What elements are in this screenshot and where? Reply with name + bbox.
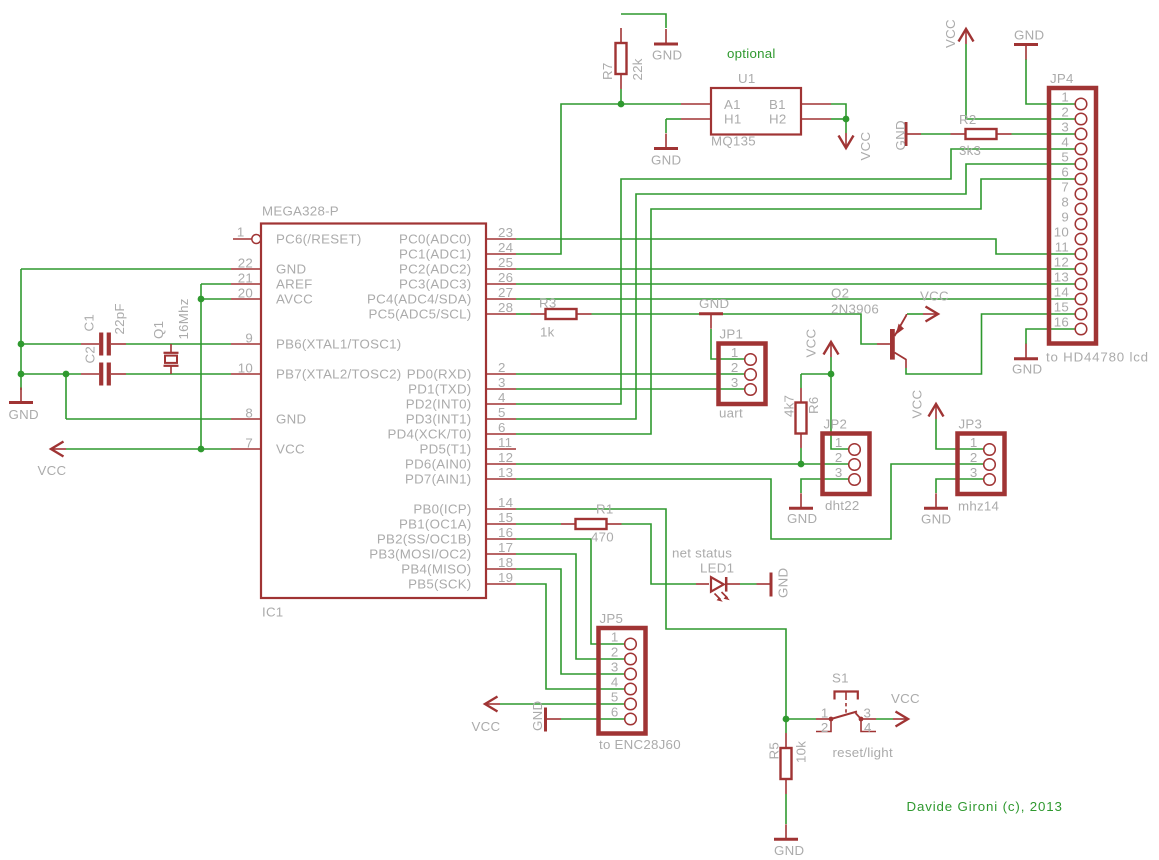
- resistor R5 (10k): [781, 748, 792, 779]
- wire VCC top to JP4 pin2: [966, 44, 1075, 119]
- svg-text:H1: H1: [724, 112, 742, 127]
- wire VCC to JP5 pin5: [500, 703, 625, 705]
- svg-text:20: 20: [238, 285, 253, 300]
- svg-text:VCC: VCC: [891, 691, 920, 706]
- svg-text:JP3: JP3: [959, 417, 983, 432]
- svg-text:C2: C2: [83, 346, 98, 364]
- ground symbol above JP1 (stub down): [699, 314, 723, 329]
- svg-text:IC1: IC1: [262, 605, 283, 620]
- svg-text:7: 7: [245, 435, 253, 450]
- JP2 pin numbers: [835, 435, 843, 480]
- VCC symbol above JP3: [929, 404, 944, 419]
- wire net PC4 pin27 to JP4 pin14: [516, 298, 1075, 300]
- svg-text:JP4: JP4: [1050, 71, 1074, 86]
- ground symbol left of R2 (rotated): [906, 122, 921, 146]
- svg-text:GND: GND: [1012, 362, 1042, 377]
- svg-text:4: 4: [1061, 135, 1069, 150]
- svg-text:PC0(ADC0): PC0(ADC0): [399, 231, 471, 246]
- ground symbol bottom left: [9, 388, 33, 403]
- wire AREF to AVCC vertical: [200, 284, 202, 299]
- VCC symbol left of IC: [51, 442, 66, 457]
- svg-text:PB3(MOSI/OC2): PB3(MOSI/OC2): [369, 546, 471, 561]
- svg-text:18: 18: [498, 555, 513, 570]
- svg-text:VCC: VCC: [858, 132, 873, 161]
- wire JP2 pin3 to GND: [801, 479, 849, 493]
- svg-text:GND: GND: [9, 407, 39, 422]
- svg-text:3: 3: [1061, 120, 1069, 135]
- S1 pin numbers: [821, 706, 872, 736]
- junction AVCC/VCC: [198, 446, 205, 453]
- svg-text:6: 6: [611, 705, 619, 720]
- svg-text:PD1(TXD): PD1(TXD): [408, 381, 471, 396]
- wire IC pin21 AREF row: [201, 283, 231, 285]
- svg-text:27: 27: [498, 285, 513, 300]
- wire R7 bottom to junction: [620, 89, 622, 104]
- VCC symbol top (JP4 pin2): [959, 29, 974, 44]
- svg-text:GND: GND: [276, 261, 306, 276]
- svg-text:14: 14: [1054, 285, 1069, 300]
- JP5 pin numbers: [611, 630, 619, 720]
- IC1 left pin names: [276, 231, 401, 456]
- svg-text:S1: S1: [832, 671, 849, 686]
- wire VCC to JP3 pin1: [936, 419, 984, 449]
- wire row10 left (GND side of C2): [21, 373, 81, 375]
- svg-text:PD7(AIN1): PD7(AIN1): [405, 471, 472, 486]
- junction R6/PD6: [798, 461, 805, 468]
- svg-text:AREF: AREF: [276, 276, 312, 291]
- svg-text:15: 15: [1054, 300, 1069, 315]
- svg-text:GND: GND: [651, 153, 681, 168]
- svg-text:13: 13: [498, 465, 513, 480]
- svg-text:R5: R5: [767, 742, 782, 760]
- resistor R2 (3k3): [966, 129, 997, 139]
- svg-text:1k: 1k: [540, 325, 555, 340]
- svg-text:GND: GND: [787, 511, 817, 526]
- ground symbol below R5: [774, 824, 798, 839]
- U1 pin names: [724, 97, 787, 127]
- wire R7 top to GND: [621, 14, 666, 28]
- svg-text:1: 1: [835, 435, 843, 450]
- wire VCC arrow below H2 junction: [845, 119, 847, 133]
- junction VCC/R6/JP2pin1: [828, 371, 835, 378]
- connector JP3 (mhz14): [958, 434, 1005, 495]
- wire VCC arrow to JP2 pin1: [831, 357, 849, 449]
- wire S1 pin3 to VCC: [876, 718, 893, 720]
- svg-text:VCC: VCC: [804, 329, 819, 358]
- svg-text:1: 1: [970, 435, 978, 450]
- svg-text:R1: R1: [596, 502, 614, 517]
- svg-text:JP1: JP1: [720, 327, 744, 342]
- IC1 pin1 stub with inversion circle: [233, 235, 261, 244]
- wire R3 to Q2 base: [592, 314, 878, 344]
- svg-text:16Mhz: 16Mhz: [176, 298, 191, 339]
- wire net PD2 pin4 to JP4 pin4: [516, 149, 1075, 404]
- svg-text:9: 9: [245, 330, 253, 345]
- svg-text:10: 10: [238, 360, 253, 375]
- VCC symbol below U1: [839, 133, 854, 148]
- svg-text:PC6(/RESET): PC6(/RESET): [276, 231, 362, 246]
- svg-text:1: 1: [731, 345, 739, 360]
- svg-text:optional: optional: [727, 46, 776, 61]
- svg-text:2: 2: [970, 450, 978, 465]
- svg-text:2: 2: [731, 360, 739, 375]
- svg-text:MQ135: MQ135: [711, 134, 756, 149]
- svg-text:16: 16: [498, 525, 513, 540]
- IC U1 (ATmega328) box IC1: [261, 224, 486, 599]
- svg-text:25: 25: [498, 255, 513, 270]
- svg-text:8: 8: [245, 405, 253, 420]
- JP3 pin numbers: [970, 435, 978, 480]
- junction GND/C2: [18, 371, 25, 378]
- svg-text:15: 15: [498, 510, 513, 525]
- svg-text:R2: R2: [959, 112, 977, 127]
- wire S1/R5 junction vertical: [785, 719, 787, 733]
- resistor red leads: [531, 28, 1012, 794]
- wire net PC3 pin26 to JP4 pin13: [516, 283, 1075, 285]
- wire net PC2 pin25 to JP4 pin12: [516, 268, 1075, 270]
- wire U1 H1 to GND: [666, 118, 681, 120]
- svg-text:PB4(MISO): PB4(MISO): [401, 561, 471, 576]
- ground symbol top right (stub down): [1014, 45, 1038, 60]
- svg-text:uart: uart: [719, 406, 743, 421]
- svg-text:VCC: VCC: [38, 463, 67, 478]
- svg-text:2: 2: [611, 645, 619, 660]
- resistor R3 (1k): [546, 309, 577, 319]
- svg-text:1: 1: [1061, 90, 1069, 105]
- IC1 left pin numbers: [237, 225, 253, 451]
- svg-text:2N3906: 2N3906: [831, 302, 879, 317]
- svg-text:PB5(SCK): PB5(SCK): [408, 576, 471, 591]
- wire VCC row to IC pin7: [66, 448, 231, 450]
- svg-text:C1: C1: [82, 314, 97, 332]
- svg-text:PC4(ADC4/SDA): PC4(ADC4/SDA): [367, 291, 471, 306]
- svg-text:4: 4: [864, 720, 872, 735]
- ground symbol right of LED1 (rotated): [757, 573, 772, 597]
- svg-text:3: 3: [864, 706, 872, 721]
- svg-text:mhz14: mhz14: [958, 499, 999, 514]
- svg-text:3: 3: [970, 465, 978, 480]
- svg-text:Q1: Q1: [151, 321, 166, 339]
- ground symbol below JP2: [789, 493, 813, 508]
- wire net RXD pin2 to JP1 pin2: [516, 373, 745, 375]
- VCC symbol left of JP5: [485, 697, 500, 712]
- wire net PD3 pin5 to JP4 pin5: [516, 164, 1075, 419]
- IC1 left pin stubs: [231, 269, 261, 449]
- svg-text:11: 11: [1055, 240, 1069, 255]
- junction GND/pin8: [63, 371, 70, 378]
- wire Q2 emitter to VCC: [907, 313, 923, 315]
- switch S1 (reset/light): [816, 692, 876, 732]
- svg-text:Q2: Q2: [831, 286, 849, 301]
- svg-text:reset/light: reset/light: [833, 745, 893, 760]
- wire R2 right to JP4 pin3: [1012, 133, 1076, 135]
- junction B1/H2/VCC: [843, 116, 850, 123]
- svg-text:5: 5: [498, 405, 506, 420]
- svg-text:2: 2: [1061, 105, 1069, 120]
- svg-text:470: 470: [591, 530, 614, 545]
- svg-text:PC1(ADC1): PC1(ADC1): [399, 246, 471, 261]
- svg-text:10: 10: [1054, 225, 1069, 240]
- svg-text:R7: R7: [600, 63, 615, 81]
- svg-text:1: 1: [821, 706, 829, 721]
- wire net PB4 pin18 to JP5 pin3: [516, 569, 625, 674]
- svg-text:9: 9: [1061, 210, 1069, 225]
- svg-text:10k: 10k: [794, 741, 809, 763]
- VCC symbol at Q2 emitter: [923, 307, 938, 322]
- wire JP4 pin16 to GND: [1026, 329, 1075, 344]
- resistor R7 (22k): [616, 43, 627, 74]
- wire net GND left vertical: [20, 269, 22, 390]
- svg-text:VCC: VCC: [276, 441, 305, 456]
- svg-text:21: 21: [238, 270, 253, 285]
- svg-text:R6: R6: [806, 397, 821, 415]
- svg-text:PB2(SS/OC1B): PB2(SS/OC1B): [377, 531, 472, 546]
- svg-text:GND: GND: [893, 120, 908, 150]
- svg-text:12: 12: [498, 450, 513, 465]
- svg-text:13: 13: [1054, 270, 1069, 285]
- svg-text:VCC: VCC: [943, 19, 958, 48]
- wire AVCC down to VCC row: [200, 299, 202, 449]
- wire R6 top to VCC junction: [800, 374, 802, 388]
- wire R5 bottom to GND: [785, 794, 787, 824]
- connector JP5 (to ENC28J60): [599, 628, 646, 734]
- wire XTAL2 net C2 to IC pin10: [126, 373, 231, 375]
- svg-text:VCC: VCC: [920, 289, 949, 304]
- ground symbol below U1 H1: [654, 134, 678, 149]
- wire net TXD pin3 to JP1 pin3: [516, 388, 745, 390]
- wire GND top to JP4 pin1: [1026, 59, 1075, 104]
- svg-text:GND: GND: [530, 701, 545, 731]
- svg-text:H2: H2: [769, 112, 787, 127]
- svg-text:28: 28: [498, 300, 513, 315]
- connector JP1 (uart): [719, 344, 766, 405]
- LED1 (net status): [696, 577, 740, 592]
- svg-text:R3: R3: [539, 296, 557, 311]
- svg-text:GND: GND: [652, 48, 682, 63]
- VCC symbol right of S1: [893, 712, 908, 727]
- svg-text:PC5(ADC5/SCL): PC5(ADC5/SCL): [368, 306, 471, 321]
- svg-text:26: 26: [498, 270, 513, 285]
- svg-text:to ENC28J60: to ENC28J60: [599, 737, 681, 752]
- svg-text:24: 24: [498, 240, 513, 255]
- svg-text:JP2: JP2: [824, 417, 848, 432]
- wire IC pin8 GND row: [66, 418, 231, 420]
- svg-text:4: 4: [498, 390, 506, 405]
- svg-text:5: 5: [1061, 150, 1069, 165]
- svg-text:19: 19: [498, 570, 513, 585]
- capacitor C2 red leads: [81, 373, 126, 375]
- wire R1 to LED1 anode: [622, 524, 697, 584]
- svg-text:B1: B1: [769, 97, 786, 112]
- svg-text:1: 1: [611, 630, 619, 645]
- svg-text:MEGA328-P: MEGA328-P: [262, 204, 339, 219]
- wire net PB0 pin14 to S1/R5: [516, 509, 816, 719]
- svg-text:3: 3: [498, 375, 506, 390]
- svg-text:GND: GND: [1014, 28, 1044, 43]
- wire LED1 cathode to GND: [740, 583, 757, 585]
- svg-text:PB7(XTAL2/TOSC2): PB7(XTAL2/TOSC2): [276, 366, 401, 381]
- wire net PC1 pin24 up to R7/A1 junction: [516, 104, 681, 254]
- wire R6 bottom to PD6 net: [800, 448, 802, 464]
- capacitor C2 plates (22pF): [101, 363, 109, 386]
- svg-text:dht22: dht22: [825, 498, 860, 513]
- svg-text:14: 14: [498, 495, 513, 510]
- junction PB0/S1/R5: [783, 716, 790, 723]
- wire U1 B1/H2 to VCC junction: [831, 104, 846, 119]
- transistor Q2 2N3906 (PNP): [877, 314, 907, 368]
- svg-text:1: 1: [237, 225, 245, 240]
- connector JP2 (dht22): [823, 434, 870, 495]
- svg-text:PD2(INT0): PD2(INT0): [406, 396, 472, 411]
- ground symbol below JP3: [924, 493, 948, 508]
- svg-text:AVCC: AVCC: [276, 291, 313, 306]
- svg-text:17: 17: [498, 540, 513, 555]
- svg-text:PB1(OC1A): PB1(OC1A): [399, 516, 471, 531]
- svg-text:23: 23: [498, 225, 513, 240]
- resistor R6 (4k7): [796, 403, 807, 434]
- svg-text:to HD44780 lcd: to HD44780 lcd: [1046, 350, 1149, 365]
- svg-text:PC3(ADC3): PC3(ADC3): [399, 276, 471, 291]
- IC1 right pin stubs: [486, 239, 516, 584]
- svg-text:8: 8: [1061, 195, 1069, 210]
- wire GND to JP5 pin6: [561, 718, 625, 720]
- svg-text:11: 11: [498, 435, 512, 450]
- svg-text:Davide Gironi (c), 2013: Davide Gironi (c), 2013: [907, 799, 1063, 814]
- crystal Q1 16Mhz: [164, 344, 179, 374]
- wire IC pin20 AVCC row: [201, 298, 231, 300]
- wire GND tap down to IC pin8: [65, 374, 67, 419]
- svg-text:12: 12: [1054, 255, 1069, 270]
- JP1 pin numbers: [731, 345, 739, 390]
- wire net PB5 pin19 to JP5 pin4: [516, 584, 625, 689]
- svg-text:PC2(ADC2): PC2(ADC2): [399, 261, 471, 276]
- svg-text:GND: GND: [276, 411, 306, 426]
- wire XTAL1 net C1 to IC pin9: [126, 343, 231, 345]
- svg-text:PD0(RXD): PD0(RXD): [407, 366, 472, 381]
- svg-text:PD6(AIN0): PD6(AIN0): [405, 456, 472, 471]
- svg-text:net status: net status: [672, 546, 732, 561]
- svg-text:VCC: VCC: [472, 719, 501, 734]
- JP4 pin numbers: [1054, 90, 1069, 330]
- svg-text:3: 3: [611, 660, 619, 675]
- gas sensor U1 MQ135 box: [711, 88, 801, 135]
- ground symbol below JP4: [1014, 344, 1038, 359]
- wire row9 left (GND side of C1): [21, 343, 81, 345]
- wire IC pin15 to R1: [516, 523, 561, 525]
- wire JP3 pin3 to GND: [936, 479, 984, 493]
- wire net PC0 pin23 to JP4 pin11: [516, 239, 1075, 254]
- VCC symbol above R6/JP2: [824, 342, 839, 357]
- IC1 right pin names: [367, 231, 471, 591]
- svg-text:2: 2: [821, 720, 829, 735]
- wire GND to R2 left: [921, 133, 951, 135]
- svg-text:4: 4: [611, 675, 619, 690]
- capacitor C1 red leads: [81, 343, 126, 345]
- svg-text:2: 2: [835, 450, 843, 465]
- svg-text:VCC: VCC: [910, 390, 925, 419]
- svg-text:A1: A1: [724, 97, 741, 112]
- svg-text:22pF: 22pF: [112, 303, 127, 334]
- junction GND/C1: [18, 341, 25, 348]
- wire net PD6 pin12 to JP2 pin2: [516, 463, 849, 465]
- svg-text:PD4(XCK/T0): PD4(XCK/T0): [387, 426, 471, 441]
- U1 pin stubs: [681, 104, 831, 119]
- svg-text:GND: GND: [921, 512, 951, 527]
- wire net PB3 pin17 to JP5 pin2: [516, 554, 625, 659]
- junction AREF/AVCC: [198, 296, 205, 303]
- svg-text:PD5(T1): PD5(T1): [420, 441, 472, 456]
- wire net PD7 pin13 to JP3 pin2: [516, 464, 984, 539]
- wire IC pin22 GND row: [21, 268, 231, 270]
- svg-text:GND: GND: [699, 296, 729, 311]
- junction R7/PC1/A1: [618, 101, 625, 108]
- svg-text:4k7: 4k7: [782, 395, 797, 417]
- svg-text:PB6(XTAL1/TOSC1): PB6(XTAL1/TOSC1): [276, 336, 401, 351]
- IC1 right pin numbers: [498, 225, 513, 585]
- wire Q2 collector to JP4 pin15: [906, 314, 1075, 374]
- svg-text:6: 6: [1061, 165, 1069, 180]
- ground symbol left of JP5 pin6 (rotated): [546, 708, 562, 732]
- wire net PB2 pin16 to JP5 pin1: [516, 539, 625, 644]
- svg-text:GND: GND: [774, 843, 804, 858]
- svg-text:16: 16: [1054, 315, 1069, 330]
- connector JP4 (to HD44780 lcd): [1049, 88, 1096, 344]
- svg-text:3: 3: [731, 375, 739, 390]
- wire net PD4 pin6 to JP4 pin6: [516, 179, 1075, 434]
- svg-text:PD3(INT1): PD3(INT1): [406, 411, 472, 426]
- svg-text:6: 6: [498, 420, 506, 435]
- svg-text:PB0(ICP): PB0(ICP): [413, 501, 471, 516]
- svg-text:22k: 22k: [630, 58, 645, 80]
- svg-text:JP5: JP5: [600, 611, 624, 626]
- resistor R1 (470): [576, 519, 607, 529]
- svg-text:7: 7: [1061, 180, 1069, 195]
- ground symbol right of R7: [654, 29, 678, 44]
- wire IC pin28 to R3: [516, 313, 531, 315]
- svg-text:GND: GND: [776, 568, 791, 598]
- svg-text:3: 3: [835, 465, 843, 480]
- capacitor C1 plates (22pF): [101, 333, 109, 356]
- svg-text:5: 5: [611, 690, 619, 705]
- svg-text:2: 2: [498, 360, 506, 375]
- svg-text:LED1: LED1: [700, 561, 734, 576]
- LED1 emission arrows: [715, 592, 730, 602]
- svg-text:22: 22: [238, 255, 253, 270]
- svg-text:3k3: 3k3: [959, 143, 981, 158]
- svg-text:U1: U1: [738, 71, 756, 86]
- wire JP1 pin1 GND drop: [711, 329, 745, 359]
